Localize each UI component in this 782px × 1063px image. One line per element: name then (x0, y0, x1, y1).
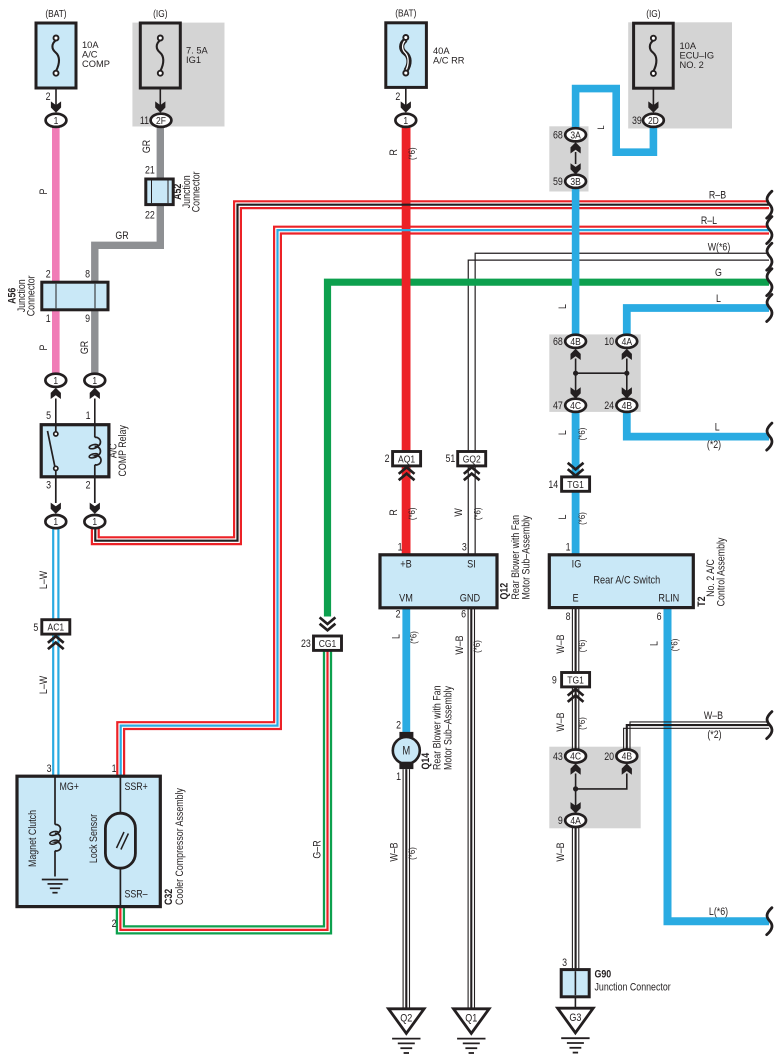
svg-text:1: 1 (92, 375, 97, 387)
wire R red 40A A/C RR to Q12 +B (402, 127, 411, 555)
svg-text:(*6): (*6) (406, 147, 417, 160)
svg-text:2F: 2F (156, 115, 166, 127)
wire G-R green/red/green from CG1 to C32 SSR- (117, 650, 331, 933)
svg-text:Cooler Compressor Assembly: Cooler Compressor Assembly (174, 788, 186, 905)
svg-text:Lock Sensor: Lock Sensor (88, 813, 100, 863)
svg-text:8: 8 (566, 611, 571, 623)
connector ovals above A/C COMP relay (45, 374, 66, 387)
svg-text:G90: G90 (595, 969, 612, 981)
svg-text:R: R (388, 149, 400, 155)
svg-text:2: 2 (396, 609, 401, 621)
svg-text:W–B: W–B (555, 634, 567, 654)
wire L blue 3B down to 4B (572, 188, 580, 336)
svg-text:11: 11 (140, 115, 149, 127)
svg-text:P: P (38, 188, 50, 194)
wire W-B triple from motor Q14 to ground Q2 (402, 769, 404, 1009)
svg-text:10A: 10A (680, 41, 697, 51)
svg-text:2: 2 (46, 269, 51, 281)
svg-text:(BAT): (BAT) (45, 8, 66, 19)
svg-text:Magnet Clutch: Magnet Clutch (27, 810, 39, 867)
svg-text:2: 2 (86, 480, 91, 492)
svg-text:3: 3 (47, 763, 52, 775)
wire W-B(*2) from right edge to 4B (630, 722, 769, 750)
svg-text:R: R (388, 509, 400, 515)
svg-text:W–B: W–B (555, 842, 567, 862)
svg-text:43: 43 (553, 751, 563, 763)
svg-text:GR: GR (115, 230, 128, 242)
svg-text:(*6): (*6) (408, 631, 419, 644)
svg-text:L: L (557, 514, 569, 519)
svg-text:M: M (402, 745, 410, 758)
fuse 40A A/C RR (BAT) (386, 23, 427, 88)
svg-text:Q1: Q1 (465, 1013, 477, 1025)
svg-text:10: 10 (604, 336, 614, 348)
svg-text:8: 8 (85, 269, 90, 281)
svg-text:L: L (391, 634, 403, 639)
wire W-B triple from Q12 GND to ground Q1 (467, 608, 469, 1009)
svg-text:A/C RR: A/C RR (433, 55, 465, 65)
wire thin G90 to ground G3 (574, 997, 576, 1008)
svg-text:68: 68 (553, 130, 563, 142)
svg-text:3: 3 (46, 480, 51, 492)
svg-text:Motor Sub–Assembly: Motor Sub–Assembly (443, 686, 455, 770)
svg-text:2: 2 (395, 91, 400, 103)
svg-text:(*2): (*2) (707, 439, 721, 451)
svg-text:L–W: L–W (38, 675, 50, 694)
svg-text:(IG): (IG) (646, 8, 660, 19)
svg-text:3: 3 (562, 957, 567, 969)
connector oval 1 below 40A fuse (395, 114, 416, 127)
svg-text:6: 6 (657, 611, 662, 623)
svg-text:(IG): (IG) (153, 8, 167, 19)
svg-text:Q12: Q12 (499, 582, 511, 599)
svg-text:9: 9 (85, 313, 90, 325)
svg-text:1: 1 (112, 763, 117, 775)
svg-text:9: 9 (558, 815, 563, 827)
svg-text:G3: G3 (569, 1012, 581, 1024)
svg-text:4B: 4B (622, 400, 632, 412)
connector oval 2D (643, 114, 664, 127)
svg-text:RLIN: RLIN (658, 593, 679, 605)
svg-text:20: 20 (604, 751, 614, 763)
svg-text:1: 1 (54, 115, 59, 127)
svg-text:1: 1 (86, 410, 91, 422)
svg-text:10A: 10A (82, 40, 99, 50)
svg-text:P: P (38, 344, 50, 350)
wire L blue 4C down through TG1 to Rear A/C Switch IG (572, 412, 580, 555)
svg-text:L(*6): L(*6) (709, 906, 728, 918)
svg-text:R–B: R–B (709, 190, 727, 202)
svg-text:G–R: G–R (312, 840, 324, 858)
svg-text:2: 2 (112, 918, 117, 930)
svg-text:59: 59 (553, 176, 563, 188)
svg-text:Junction Connector: Junction Connector (595, 982, 672, 994)
wire L blue ECU-IG zigzag 2D to 3A (576, 89, 654, 153)
svg-text:W–B: W–B (454, 635, 466, 655)
svg-text:(*6): (*6) (576, 640, 587, 653)
connector oval 1 below A/C COMP fuse (46, 114, 67, 127)
connector ovals below relay (45, 515, 66, 528)
wire gray GR from 2F through A52 to A56 (95, 127, 161, 374)
svg-text:(*6): (*6) (576, 428, 587, 441)
svg-text:1: 1 (46, 313, 51, 325)
rear blower motor Q14 (399, 732, 413, 739)
gray panel behind IG fuse 7.5A IG1 (132, 23, 224, 127)
connector 23 CG1 (320, 617, 336, 630)
svg-text:5: 5 (33, 622, 38, 634)
svg-text:2: 2 (385, 453, 390, 465)
svg-text:(*2): (*2) (707, 729, 721, 741)
wire W-B triple from 4A to G90 (571, 827, 573, 970)
svg-text:COMP Relay: COMP Relay (117, 425, 129, 476)
svg-text:Q2: Q2 (400, 1013, 412, 1025)
svg-text:SSR–: SSR– (125, 889, 149, 901)
svg-text:1: 1 (92, 516, 97, 528)
svg-text:2D: 2D (648, 115, 659, 127)
svg-text:COMP: COMP (82, 59, 110, 69)
svg-text:L–W: L–W (38, 570, 50, 589)
svg-text:3A: 3A (570, 130, 581, 142)
svg-text:68: 68 (553, 336, 563, 348)
svg-text:1: 1 (566, 542, 571, 554)
svg-text:22: 22 (145, 210, 155, 222)
svg-text:W–B: W–B (704, 710, 724, 722)
svg-text:SSR+: SSR+ (125, 781, 149, 793)
svg-text:47: 47 (553, 400, 563, 412)
ground Q1 (454, 1009, 490, 1034)
svg-text:Rear A/C Switch: Rear A/C Switch (593, 575, 660, 587)
svg-text:9: 9 (552, 675, 557, 687)
svg-text:W–B: W–B (389, 842, 401, 862)
svg-text:(BAT): (BAT) (395, 8, 416, 19)
svg-text:L: L (557, 304, 569, 309)
svg-text:(*6): (*6) (472, 507, 483, 520)
svg-text:L: L (716, 293, 721, 305)
wire L-W double blue from relay to C32 MG+ (52, 529, 54, 777)
svg-text:Q14: Q14 (420, 752, 432, 769)
svg-text:4B: 4B (570, 336, 580, 348)
svg-text:2: 2 (396, 720, 401, 732)
cooler compressor assembly C32 (17, 776, 160, 906)
svg-text:L: L (715, 422, 720, 434)
rear A/C switch T2 - No.2 A/C control assembly (549, 555, 693, 608)
svg-text:GQ2: GQ2 (463, 454, 481, 466)
svg-text:(*6): (*6) (406, 847, 417, 860)
junction connector A56 (42, 282, 108, 310)
fuse 10A ECU-IG NO.2 (IG) (634, 23, 674, 88)
junction connector A52 (146, 179, 173, 205)
svg-text:Control Assembly: Control Assembly (716, 538, 728, 607)
wire W(*6) double line from right edge to GQ2/SI (475, 253, 769, 555)
wire G green from right edge down to CG1 (328, 282, 770, 616)
svg-text:MG+: MG+ (59, 781, 79, 793)
svg-text:1: 1 (53, 375, 58, 387)
svg-text:7. 5A: 7. 5A (186, 46, 209, 56)
svg-text:4C: 4C (570, 751, 581, 763)
svg-text:3: 3 (462, 542, 467, 554)
svg-text:AC1: AC1 (48, 622, 65, 634)
gray panel behind connector 3A/3B (549, 126, 588, 191)
svg-text:Connector: Connector (191, 171, 203, 212)
svg-text:GR: GR (141, 140, 153, 153)
svg-text:+B: +B (400, 559, 412, 571)
rear blower with fan motor sub-assembly Q12 (380, 555, 497, 608)
svg-text:TG1: TG1 (567, 675, 584, 687)
svg-text:CG1: CG1 (319, 638, 337, 650)
tie line with junction dots (576, 372, 627, 374)
svg-text:(*6): (*6) (576, 717, 587, 730)
svg-text:24: 24 (604, 400, 614, 412)
svg-text:3B: 3B (570, 176, 580, 188)
svg-text:SI: SI (467, 559, 476, 571)
svg-text:R–L: R–L (701, 215, 718, 227)
svg-text:Connector: Connector (26, 275, 38, 316)
ground G3 (558, 1008, 594, 1033)
svg-text:GR: GR (79, 341, 91, 354)
gray panel behind connector block 4B/4A/4C/4B (549, 334, 640, 412)
svg-text:A/C: A/C (82, 50, 98, 60)
svg-text:5: 5 (46, 410, 51, 422)
svg-text:4A: 4A (570, 815, 581, 827)
ground symbol inside C32 (42, 879, 68, 881)
svg-text:4C: 4C (570, 400, 581, 412)
svg-text:L: L (649, 641, 661, 646)
fuse 7.5A IG1 (IG) (140, 23, 180, 88)
svg-text:1: 1 (396, 771, 401, 783)
wire pink P from fuse 10A A/C COMP through A56 (52, 127, 60, 374)
svg-text:1: 1 (53, 516, 58, 528)
svg-text:14: 14 (548, 479, 558, 491)
svg-text:IG: IG (572, 559, 582, 571)
svg-text:L: L (595, 125, 606, 129)
svg-text:(*6): (*6) (406, 507, 417, 520)
fuse 10A A/C COMP (BAT) (36, 23, 76, 88)
svg-text:2: 2 (46, 91, 51, 103)
svg-text:51: 51 (445, 453, 455, 465)
A/C COMP relay (41, 425, 109, 477)
wire L blue from right edge to 4A (627, 308, 769, 335)
svg-text:40A: 40A (433, 46, 450, 56)
svg-text:(*6): (*6) (471, 640, 482, 653)
svg-text:E: E (573, 593, 579, 605)
lock sensor capsule (119, 776, 121, 813)
svg-text:Motor Sub–Assembly: Motor Sub–Assembly (521, 515, 533, 599)
wire R-L red/blue/red from right edge to C32 SSR+ (117, 227, 769, 777)
svg-text:NO. 2: NO. 2 (680, 60, 704, 70)
svg-text:GND: GND (460, 593, 480, 605)
svg-text:(*6): (*6) (669, 639, 680, 652)
svg-text:4B: 4B (622, 751, 632, 763)
ground Q2 (389, 1009, 425, 1034)
svg-text:G: G (715, 267, 722, 279)
svg-text:1: 1 (398, 542, 403, 554)
svg-text:W: W (453, 508, 465, 517)
svg-text:L: L (557, 430, 569, 435)
svg-text:(*6): (*6) (576, 512, 587, 525)
svg-text:W(*6): W(*6) (708, 242, 731, 254)
svg-text:6: 6 (461, 609, 466, 621)
svg-text:IG1: IG1 (186, 55, 201, 65)
wire L(*6) blue from RLIN to right edge (668, 608, 770, 922)
wire L blue Q12 VM to motor Q14 (402, 608, 410, 734)
svg-text:W–B: W–B (555, 712, 567, 732)
wire R-B red/black/red from relay oval to right edge (92, 208, 769, 544)
svg-text:39: 39 (632, 115, 642, 127)
connector 14 TG1 (568, 463, 584, 476)
svg-text:4A: 4A (622, 336, 633, 348)
svg-text:AQ1: AQ1 (398, 454, 415, 466)
svg-text:21: 21 (145, 165, 155, 177)
svg-text:23: 23 (301, 638, 311, 650)
svg-text:VM: VM (399, 593, 413, 605)
svg-text:TG1: TG1 (567, 479, 584, 491)
svg-text:1: 1 (403, 115, 408, 127)
svg-text:ECU–IG: ECU–IG (680, 51, 715, 61)
wire L(*2) blue from 4B to right edge (627, 412, 769, 437)
connector oval 2F (151, 114, 172, 127)
wire W-B triple from T2 E through TG1 to 4C (571, 608, 573, 750)
gray panel behind connector block 4C/4B/4A (549, 747, 640, 829)
gray panel behind IG fuse 10A ECU-IG NO.2 (628, 22, 732, 128)
